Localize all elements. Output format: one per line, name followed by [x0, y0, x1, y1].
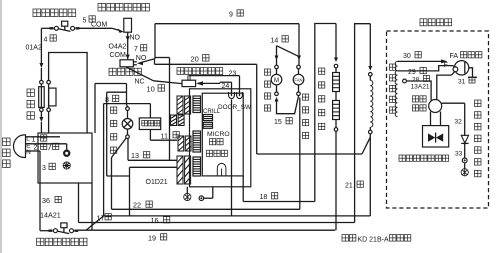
- control board inner box: [202, 93, 243, 176]
- M stem bottom: [276, 85, 278, 92]
- wire 24b: [220, 81, 232, 83]
- label 高压危险: [420, 19, 452, 26]
- board grill connector b: [203, 122, 212, 128]
- connector O1D21: [177, 156, 191, 184]
- mag thermostat contact right: [70, 229, 74, 233]
- wire m riser: [276, 46, 278, 66]
- board earth symbol: [217, 163, 226, 175]
- caption 电磁炉 glyphs: [390, 235, 411, 242]
- wire 5yellow: [79, 27, 112, 29]
- door switch socket right: [237, 92, 243, 99]
- svg-text:COM: COM: [91, 21, 108, 28]
- arrow into monitor switch: [126, 55, 130, 60]
- coil lead down: [369, 134, 371, 216]
- wire node east stub: [155, 57, 170, 59]
- thermostat body: [62, 21, 68, 26]
- label 电容 (cap): [413, 105, 427, 111]
- quartz heater 2: [333, 101, 340, 120]
- M motor terminal bottom: [275, 92, 279, 96]
- wire 10red to 2nd interlock: [154, 81, 183, 84]
- diode output terminal dot: [464, 159, 466, 161]
- label 16 蓝 glyph: [164, 217, 170, 223]
- svg-text:33: 33: [455, 151, 463, 158]
- label 监控开关: [109, 68, 142, 75]
- label 22 蓝 glyph: [146, 201, 152, 207]
- label 风扇电机: [303, 94, 309, 139]
- filament pin lower: [452, 71, 456, 75]
- mag thermostat contact left: [53, 229, 57, 233]
- fuse holder box: [49, 88, 56, 106]
- arrow fuse-left upper: [39, 63, 43, 68]
- lamp top diag: [127, 105, 128, 107]
- thermostat contact left: [54, 26, 58, 30]
- wire fuse-right lower: [48, 112, 50, 133]
- earth terminal ring: [64, 151, 69, 156]
- bidir diode bar: [435, 133, 437, 143]
- svg-text:3: 3: [42, 165, 46, 172]
- node terminal dot: [200, 197, 202, 199]
- wire 24 join: [219, 82, 221, 83]
- wire 30red: [398, 60, 443, 62]
- wire 18black down: [242, 176, 244, 202]
- label 9 棕 glyph: [237, 10, 243, 16]
- hv capacitor: [429, 100, 442, 113]
- fuse-right lead: [48, 84, 50, 108]
- svg-text:36: 36: [42, 196, 50, 205]
- wire 17blue vertical: [103, 104, 105, 216]
- arrow at NO pin: [137, 61, 143, 65]
- filament pin upper: [453, 66, 456, 67]
- monitor NO pin b: [133, 64, 136, 66]
- cap lead left: [430, 112, 432, 126]
- svg-text:M: M: [274, 78, 279, 84]
- wire NO to node up: [142, 59, 155, 62]
- fuse-right terminal bottom: [47, 108, 51, 112]
- label 磁控管: [461, 52, 482, 58]
- lamp stem top: [127, 111, 129, 119]
- svg-text:NO: NO: [130, 35, 141, 42]
- label 36 蓝 glyph: [55, 196, 61, 202]
- coil terminal top: [369, 73, 373, 77]
- coil lead top: [369, 24, 371, 66]
- label 21 棕 glyph: [357, 181, 363, 187]
- magnetron body: [454, 61, 468, 75]
- second interlock body: [182, 80, 196, 86]
- wire fan down: [299, 98, 301, 210]
- wire 13white riser: [127, 139, 129, 161]
- label 7 红 glyph: [141, 45, 147, 51]
- arrow at M top: [275, 56, 279, 61]
- wire box exit left: [78, 183, 80, 223]
- svg-text:14: 14: [271, 37, 279, 44]
- monitor NO pin a: [133, 61, 136, 63]
- label 高压变压器: [390, 64, 396, 113]
- svg-text:9: 9: [229, 11, 233, 18]
- quartz box left+top: [315, 24, 336, 202]
- board connector strip 1: [193, 96, 201, 113]
- fuse-right terminal top: [47, 80, 51, 84]
- label slash: [49, 143, 52, 150]
- wire o1d21 lower horizontal: [130, 166, 178, 168]
- wire nc-area vertical: [94, 84, 96, 134]
- wire switch left: [41, 27, 53, 29]
- transformer box: [139, 118, 160, 130]
- wire lamp feed horizontal: [107, 91, 127, 93]
- svg-text:24: 24: [222, 83, 230, 90]
- arrow below M: [275, 97, 279, 102]
- wire E pin: [26, 143, 32, 145]
- label 控制: [210, 139, 224, 145]
- svg-text:F: F: [444, 62, 448, 69]
- fuse body: [39, 87, 45, 108]
- lamp terminal top: [126, 107, 130, 111]
- magnetron output: [469, 68, 473, 78]
- connector second: [171, 115, 185, 126]
- svg-text:8: 8: [105, 95, 109, 104]
- wire 17blue diagonal: [86, 216, 104, 230]
- node terminal: [199, 196, 204, 201]
- label 3 蓝 glyph: [49, 163, 55, 169]
- label 31 红 glyph: [469, 77, 475, 83]
- thermostat body stem: [64, 26, 66, 30]
- label 1 棕 glyph: [41, 135, 47, 141]
- svg-text:FAN: FAN: [294, 78, 302, 83]
- wire L pin: [26, 136, 32, 138]
- earth symbol power: [63, 162, 70, 169]
- arrow on 7red upper: [126, 36, 130, 41]
- svg-text:18: 18: [260, 194, 268, 201]
- wire o1d21 lower riser: [129, 167, 131, 216]
- quartz lead down: [335, 131, 337, 230]
- svg-text:22: 22: [133, 201, 141, 210]
- quartz terminal bottom: [334, 128, 338, 132]
- quartz terminal top: [334, 64, 338, 68]
- svg-text:23: 23: [229, 70, 237, 77]
- caption 美的 glyphs: [342, 235, 356, 242]
- label 高压二极管组件: [475, 100, 482, 177]
- svg-text:01A2: 01A2: [26, 45, 42, 52]
- monitor switch body: [120, 60, 133, 67]
- bidir diode left: [428, 133, 435, 141]
- wire 9brown riser: [154, 24, 156, 59]
- svg-text:14A21: 14A21: [40, 210, 61, 219]
- lamp terminal bottom: [126, 135, 130, 139]
- svg-text:O1D21: O1D21: [146, 179, 168, 186]
- node wire east: [204, 197, 213, 199]
- wire 22blue riser: [111, 158, 113, 210]
- label 13 白 glyph: [144, 152, 150, 158]
- mag thermostat body: [61, 223, 67, 228]
- svg-text:19: 19: [148, 233, 156, 242]
- fuse terminal bottom-left: [40, 108, 44, 112]
- scan edge line: [0, 0, 2, 253]
- door switch socket left: [229, 92, 235, 99]
- wire transformer top west: [104, 103, 151, 105]
- wire 13white horizontal: [128, 159, 177, 161]
- label 绿 glyph: [53, 143, 59, 149]
- FAN motor terminal bottom: [297, 92, 301, 96]
- wire fuse-right top path: [49, 53, 88, 134]
- bidirectional diode box: [423, 126, 449, 147]
- quartz heater 1: [333, 73, 340, 92]
- label 17蓝 glyph: [105, 214, 111, 220]
- svg-text:31: 31: [458, 79, 466, 86]
- earth symbol board: [184, 193, 191, 200]
- arrow fuse-left lower: [39, 117, 43, 122]
- earth symbol hv: [461, 169, 468, 176]
- svg-text:16: 16: [151, 216, 159, 225]
- label 19白 glyph: [161, 234, 167, 240]
- fan motor FAN: [293, 74, 304, 85]
- wire 20white lower horizontal: [257, 153, 362, 155]
- rail mid: [104, 215, 371, 217]
- transformer bottom lead: [149, 130, 151, 141]
- grill coil winding: [370, 80, 373, 127]
- coil lead a: [369, 76, 371, 80]
- connector 11brown: [178, 136, 191, 151]
- board earth stem: [186, 187, 188, 194]
- wire 23 into socket: [239, 76, 241, 97]
- wire N pin: [26, 150, 32, 152]
- arrow at FAN top: [297, 56, 301, 61]
- control board outer box: [190, 89, 251, 187]
- svg-text:29: 29: [408, 69, 416, 76]
- wire node drop to 13white: [169, 58, 171, 161]
- mag thermostat stem: [63, 228, 65, 232]
- wire 19white west: [77, 229, 336, 231]
- rail 22blue: [112, 208, 300, 210]
- coil box left+top: [355, 24, 371, 223]
- wire 20white down: [256, 64, 258, 154]
- svg-text:COM: COM: [110, 52, 127, 59]
- label 炉腔温控器: [33, 9, 76, 17]
- power plug: [13, 135, 25, 158]
- wire 1brown: [31, 136, 60, 138]
- power terminal box: [38, 133, 92, 183]
- diode output terminal: [462, 158, 467, 163]
- coil lead b: [369, 127, 371, 130]
- label 18 黑 glyph: [272, 193, 278, 199]
- svg-text:32: 32: [455, 119, 463, 126]
- wire 11brown: [150, 139, 177, 141]
- label 5 黄 glyph: [89, 16, 95, 22]
- svg-text:21: 21: [345, 183, 353, 190]
- svg-text:MICRO: MICRO: [207, 131, 230, 138]
- arrow into first interlock: [118, 29, 124, 33]
- svg-text:5: 5: [83, 18, 87, 25]
- svg-text:13A21: 13A21: [411, 83, 430, 90]
- turntable motor M: [271, 74, 282, 85]
- board grill connector a: [203, 115, 212, 121]
- node vertical stub: [154, 59, 156, 65]
- thermostat contact right: [71, 26, 75, 30]
- quartz lead b: [335, 120, 337, 128]
- label 石英管组件: [319, 68, 325, 130]
- transformer top lead: [149, 104, 151, 118]
- wire lamp branch lower: [107, 175, 130, 177]
- fuse terminal top-left: [40, 80, 44, 84]
- wire 31red: [437, 75, 452, 100]
- label 2 黄 glyph: [41, 143, 47, 149]
- label 指示灯泡: [111, 107, 117, 153]
- svg-text:N: N: [26, 149, 30, 156]
- mag thermostat lever: [57, 231, 69, 234]
- label 电路板: [207, 150, 228, 156]
- svg-text:20: 20: [191, 55, 199, 64]
- wire nc-area horizontal: [95, 83, 127, 85]
- first interlock switch body: [124, 18, 132, 32]
- wire 20white diagonal to coil: [362, 137, 370, 154]
- wire 29red: [398, 66, 453, 71]
- label 电源线: [3, 138, 11, 168]
- wire lamp feed vertical: [106, 92, 108, 176]
- wire NC diagonal: [126, 67, 154, 81]
- bidir diode right: [436, 133, 443, 141]
- wire psi-left down: [231, 100, 233, 216]
- high voltage dashed box: [387, 31, 489, 208]
- earth lead hv: [464, 163, 466, 169]
- label 高压 (cap): [413, 96, 427, 102]
- hv diode bar: [461, 142, 468, 144]
- wire 28red: [406, 81, 431, 101]
- hv transformer winding: [395, 61, 397, 116]
- svg-text:O4A2: O4A2: [109, 43, 127, 50]
- thermostat lead dash right: [76, 27, 80, 29]
- label 4 红 glyph: [50, 35, 56, 41]
- board connector strip 2: [193, 131, 201, 152]
- label 第二连锁开关: [177, 68, 223, 75]
- hv diode triangle: [461, 135, 468, 143]
- wire fuse-left upper2: [40, 68, 42, 80]
- thermostat lever: [58, 29, 70, 32]
- svg-text:11: 11: [161, 131, 168, 140]
- wire 3blue: [31, 150, 40, 152]
- magnetron cathode bar: [464, 62, 466, 74]
- label 15 白 glyph: [286, 118, 292, 124]
- wire 24: [202, 82, 220, 84]
- mag thermostat lead dash right: [74, 229, 78, 231]
- wire 24 into socket: [231, 82, 233, 96]
- lamp top drop: [126, 84, 128, 105]
- label 10 红 glyph: [158, 85, 165, 92]
- wire 18black east: [243, 201, 315, 203]
- hv tap terminal: [403, 79, 407, 83]
- diode lead bottom: [464, 143, 466, 158]
- wire box exit right: [91, 183, 93, 230]
- svg-text:KD 21B-A: KD 21B-A: [358, 236, 389, 243]
- wire 36blue down: [39, 151, 41, 231]
- wire fuse-left lower2: [40, 122, 42, 133]
- second interlock pin: [188, 76, 190, 80]
- wire m-fan diagonal: [277, 46, 300, 57]
- wire lamp to 22blue diag: [112, 138, 127, 158]
- M motor terminal top: [275, 65, 279, 69]
- wire 9brown horizontal: [155, 23, 299, 25]
- label 11 棕 glyph: [173, 132, 179, 138]
- arrow coil top: [368, 66, 372, 71]
- quartz lead mid: [335, 92, 337, 101]
- indicator lamp bulb: [122, 119, 133, 130]
- label 变压器: [142, 120, 160, 126]
- label 双向二极管组件: [399, 155, 449, 161]
- label 14 黑 glyph: [282, 36, 288, 42]
- lamp X stroke b: [124, 120, 131, 127]
- svg-text:15: 15: [274, 119, 282, 126]
- wire fuse-left lower: [40, 112, 42, 117]
- lamp stem bottom: [127, 129, 129, 135]
- wire 23: [189, 75, 240, 77]
- label 20 白 glyph: [203, 55, 210, 62]
- wire 2yellowgreen drop: [66, 144, 68, 150]
- svg-text:10: 10: [147, 85, 155, 94]
- arrow quartz top: [334, 58, 338, 63]
- connector top: [177, 96, 191, 114]
- svg-text:FA: FA: [450, 53, 459, 60]
- wire 20white horizontal: [155, 63, 257, 65]
- arrow 30red: [441, 59, 448, 63]
- FAN stem bottom: [298, 85, 300, 92]
- quartz lead top: [335, 24, 337, 58]
- magnetron antenna bar: [468, 76, 477, 78]
- fuse lead inside: [40, 84, 42, 108]
- wire to magnetron thermostat: [40, 230, 50, 232]
- magnetron filament circle: [453, 67, 458, 72]
- mag thermostat lead dash left: [49, 229, 53, 231]
- svg-text:7: 7: [134, 46, 138, 53]
- label 28 红 glyph: [424, 75, 430, 81]
- cap lead right: [440, 112, 442, 126]
- wire 15white: [277, 96, 299, 114]
- label 30 红 glyph: [415, 52, 421, 58]
- svg-text:NC: NC: [135, 78, 145, 85]
- rail 16blue: [79, 222, 355, 224]
- lamp X stroke a: [124, 120, 131, 127]
- FAN motor terminal top: [297, 65, 301, 69]
- quartz lead a: [335, 68, 337, 73]
- FAN stem top: [298, 69, 300, 75]
- wire to interlock COM: [112, 28, 121, 30]
- board connector strip 3: [193, 157, 201, 176]
- label 29 红 glyph: [420, 67, 426, 73]
- M stem top: [276, 69, 278, 75]
- arrow at second interlock NO: [196, 81, 203, 85]
- label 保险管: [27, 89, 34, 119]
- svg-text:30: 30: [403, 53, 411, 60]
- diode lead top: [464, 103, 466, 136]
- node wire up: [212, 187, 214, 198]
- label 转盘电机: [265, 69, 271, 111]
- wire fuse-left upper: [40, 28, 42, 63]
- coil terminal bottom: [369, 130, 373, 134]
- svg-text:DOOR_SW: DOOR_SW: [218, 104, 252, 111]
- label 第一连锁开关: [98, 3, 149, 11]
- wire 2yellowgreen: [31, 143, 67, 145]
- wire 7red: [127, 32, 129, 59]
- thermostat lead dash left: [50, 27, 54, 29]
- svg-text:13: 13: [131, 151, 139, 160]
- label 磁控管温控器: [37, 238, 87, 245]
- wire 32: [442, 102, 465, 104]
- wire fan riser: [298, 24, 300, 66]
- svg-text:4: 4: [44, 37, 48, 44]
- label 8 棕 glyph: [113, 95, 119, 101]
